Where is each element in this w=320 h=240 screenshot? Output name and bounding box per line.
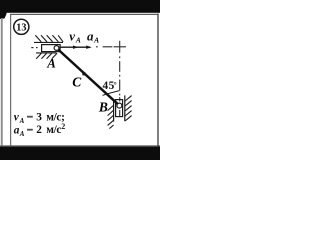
- frame right vertical line: [157, 14, 158, 147]
- given values line 2: aA = 2 m/s^2: [14, 122, 66, 138]
- frame left vertical line: [10, 14, 11, 146]
- dash-dot trace left of slider A: [31, 47, 37, 49]
- top guide hatch strokes: [35, 35, 63, 42]
- svg-text:A: A: [19, 130, 25, 138]
- vertical guide left line: [113, 99, 115, 121]
- svg-text:2: 2: [61, 122, 65, 131]
- svg-text:v: v: [69, 28, 75, 43]
- right guide hatch strokes: [125, 96, 132, 121]
- frame top horizontal line: [10, 14, 159, 15]
- scan black top band: [0, 0, 160, 13]
- svg-text:A: A: [75, 36, 81, 45]
- scan bottom band soft top edge: [0, 145, 160, 146]
- slider block B: [116, 100, 123, 117]
- bottom guide line: [36, 52, 57, 54]
- scan left edge smudge: [1, 18, 3, 148]
- svg-text:м/с: м/с: [46, 124, 61, 136]
- paper background: [0, 0, 160, 160]
- arrowhead aA: [86, 46, 92, 49]
- left guide hatch strokes: [108, 105, 114, 128]
- svg-text:2: 2: [36, 124, 42, 136]
- rod AB: [57, 48, 119, 105]
- svg-text:13: 13: [16, 23, 26, 34]
- svg-text:A: A: [46, 57, 56, 71]
- velocity/acceleration arrow shaft: [59, 46, 90, 48]
- arrowhead vA: [73, 46, 79, 49]
- svg-text:3: 3: [36, 111, 42, 123]
- vertical guide right line: [124, 95, 126, 121]
- mid-rod point C dot: [82, 72, 86, 76]
- svg-text:B: B: [98, 99, 108, 114]
- pin A: [54, 46, 59, 51]
- svg-text:°: °: [114, 81, 117, 90]
- axis cross vertical bar: [119, 41, 121, 53]
- 45 degree arc: [103, 91, 120, 96]
- svg-text:C: C: [72, 74, 82, 89]
- top guide hatching line: [34, 41, 63, 43]
- pin B: [117, 103, 122, 108]
- svg-text:a: a: [87, 28, 94, 43]
- svg-text:A: A: [19, 117, 25, 125]
- scan bottom band: [0, 146, 160, 160]
- slider block A: [42, 45, 61, 52]
- vertical dash-dot axis: [119, 56, 121, 116]
- horizontal dash-dot axis: [96, 46, 126, 48]
- problem number circle: [14, 19, 29, 34]
- scan black top-left blob: [0, 0, 7, 19]
- svg-text:A: A: [93, 36, 99, 45]
- given values line 1: vA = 3 m/s;: [14, 111, 65, 125]
- bottom guide hatch strokes: [36, 53, 57, 59]
